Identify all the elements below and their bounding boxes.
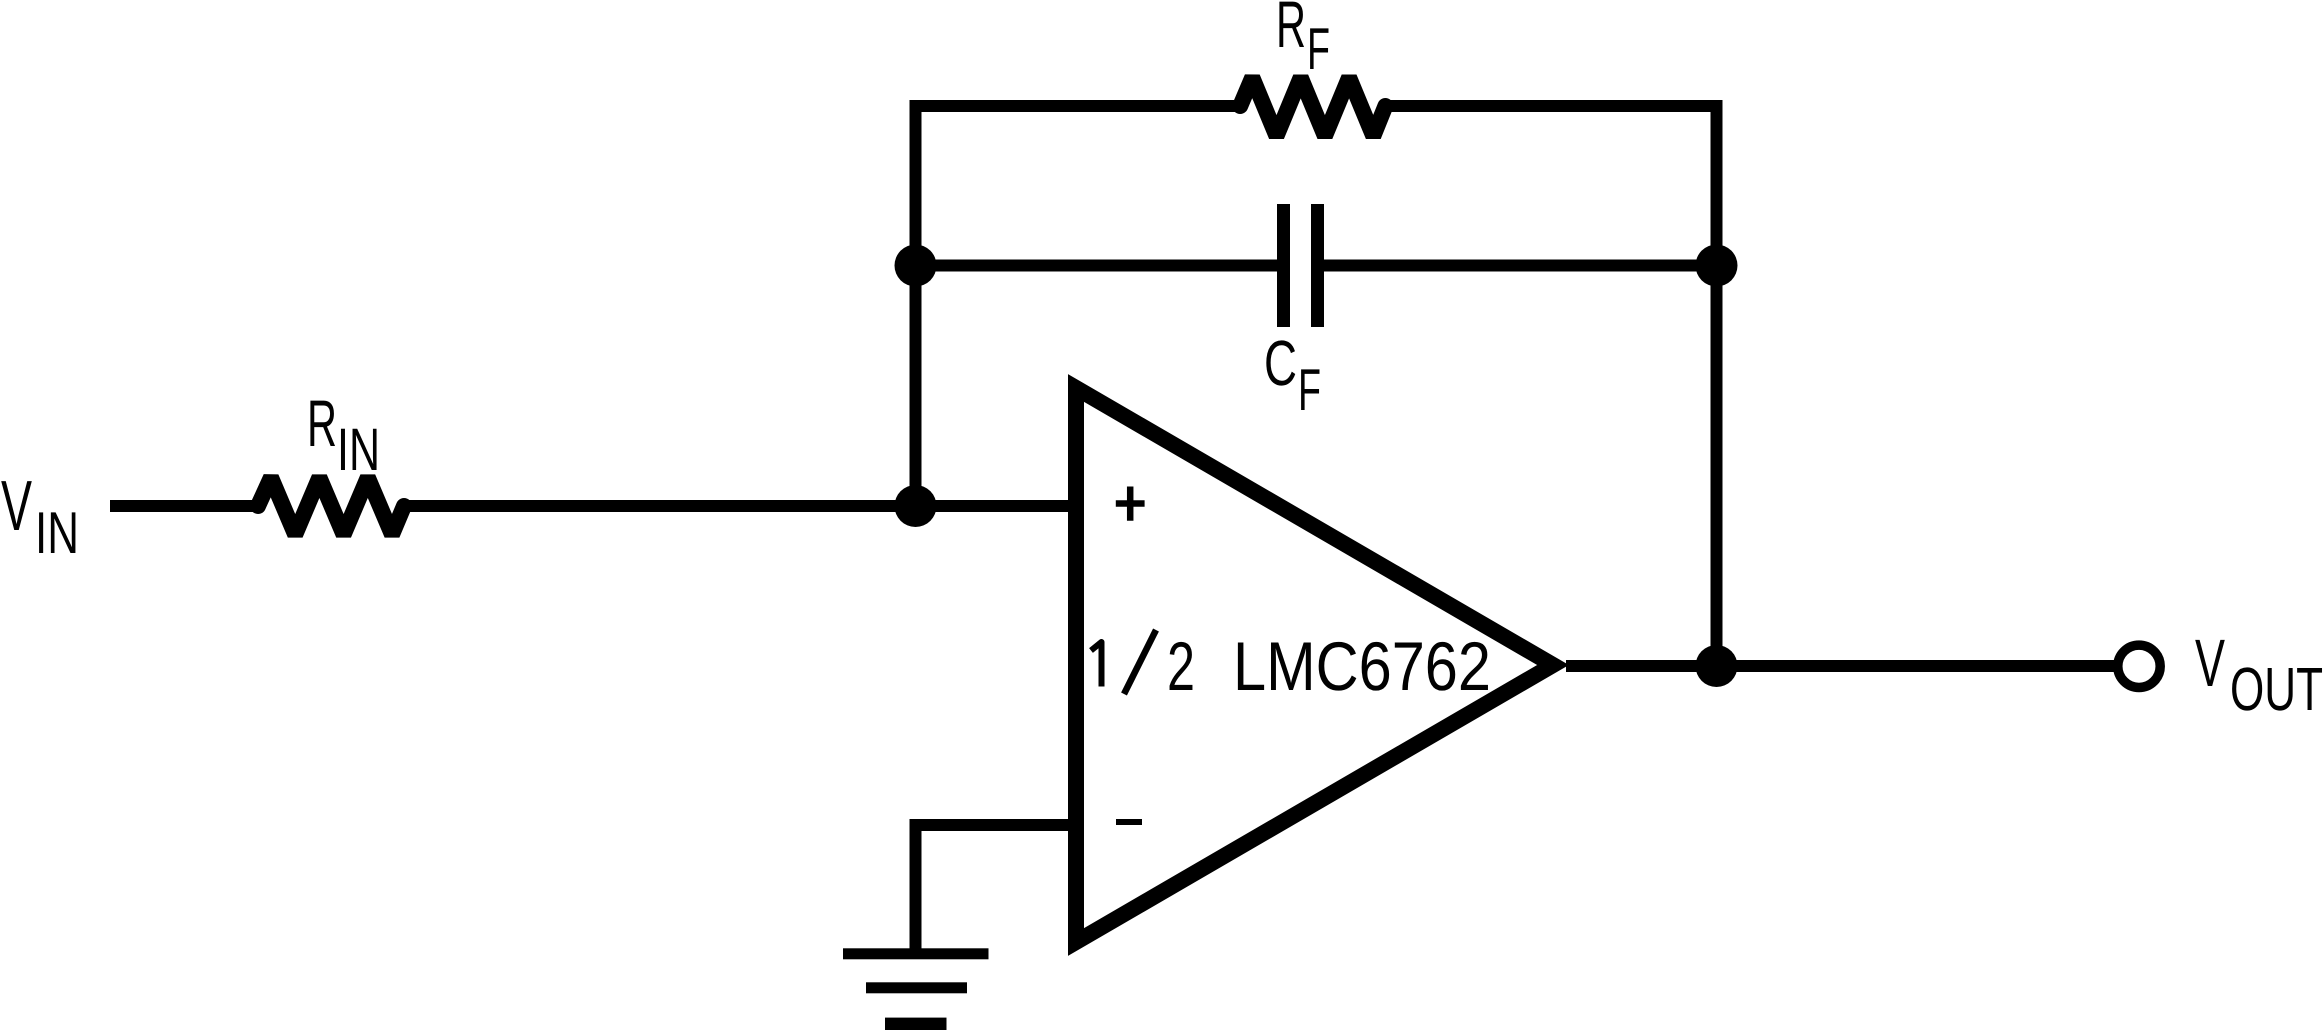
svg-text:2: 2 (1167, 628, 1195, 705)
svg-text:R: R (1276, 0, 1306, 61)
svg-text:V: V (2195, 626, 2225, 701)
op-amp U1 1/2 LMC6762 (1076, 388, 1553, 942)
node A junction dot at input (895, 485, 937, 527)
wire op-amp output to VOUT terminal (1566, 660, 2114, 672)
resistor RIN (258, 478, 404, 535)
terminal VOUT open circle (2118, 645, 2160, 687)
wire op-amp - input to ground stem (916, 825, 1077, 953)
ground (843, 948, 989, 1030)
wire from RIN to op-amp + input (403, 500, 1076, 512)
node B junction dot left of CF (895, 245, 937, 287)
svg-text:R: R (307, 386, 337, 460)
wire from RF to right feedback vertical down to output (1385, 106, 1716, 666)
op-amp - input symbol (1116, 819, 1142, 825)
wire left feedback vertical and top horizontal to RF (916, 106, 1241, 506)
svg-text:V: V (1, 467, 32, 546)
node D junction dot at output (1696, 645, 1738, 687)
svg-text:F: F (1298, 357, 1321, 423)
label 1/2 LMC6762 (1091, 642, 1102, 687)
svg-text:C: C (1264, 327, 1297, 399)
resistor RF (1240, 78, 1385, 137)
wire input from VIN to RIN (110, 500, 259, 512)
capacitor CF (1277, 204, 1324, 327)
op-amp + input symbol (1116, 487, 1145, 521)
node C junction dot right of CF (1696, 245, 1738, 287)
svg-text:OUT: OUT (2230, 655, 2323, 723)
svg-text:IN: IN (337, 416, 380, 483)
wire from node B to CF left plate (916, 260, 1278, 272)
wire from CF right plate to right feedback vertical (1324, 260, 1717, 272)
svg-text:F: F (1307, 16, 1330, 82)
svg-text:LMC6762: LMC6762 (1233, 628, 1491, 705)
svg-text:IN: IN (35, 500, 79, 566)
